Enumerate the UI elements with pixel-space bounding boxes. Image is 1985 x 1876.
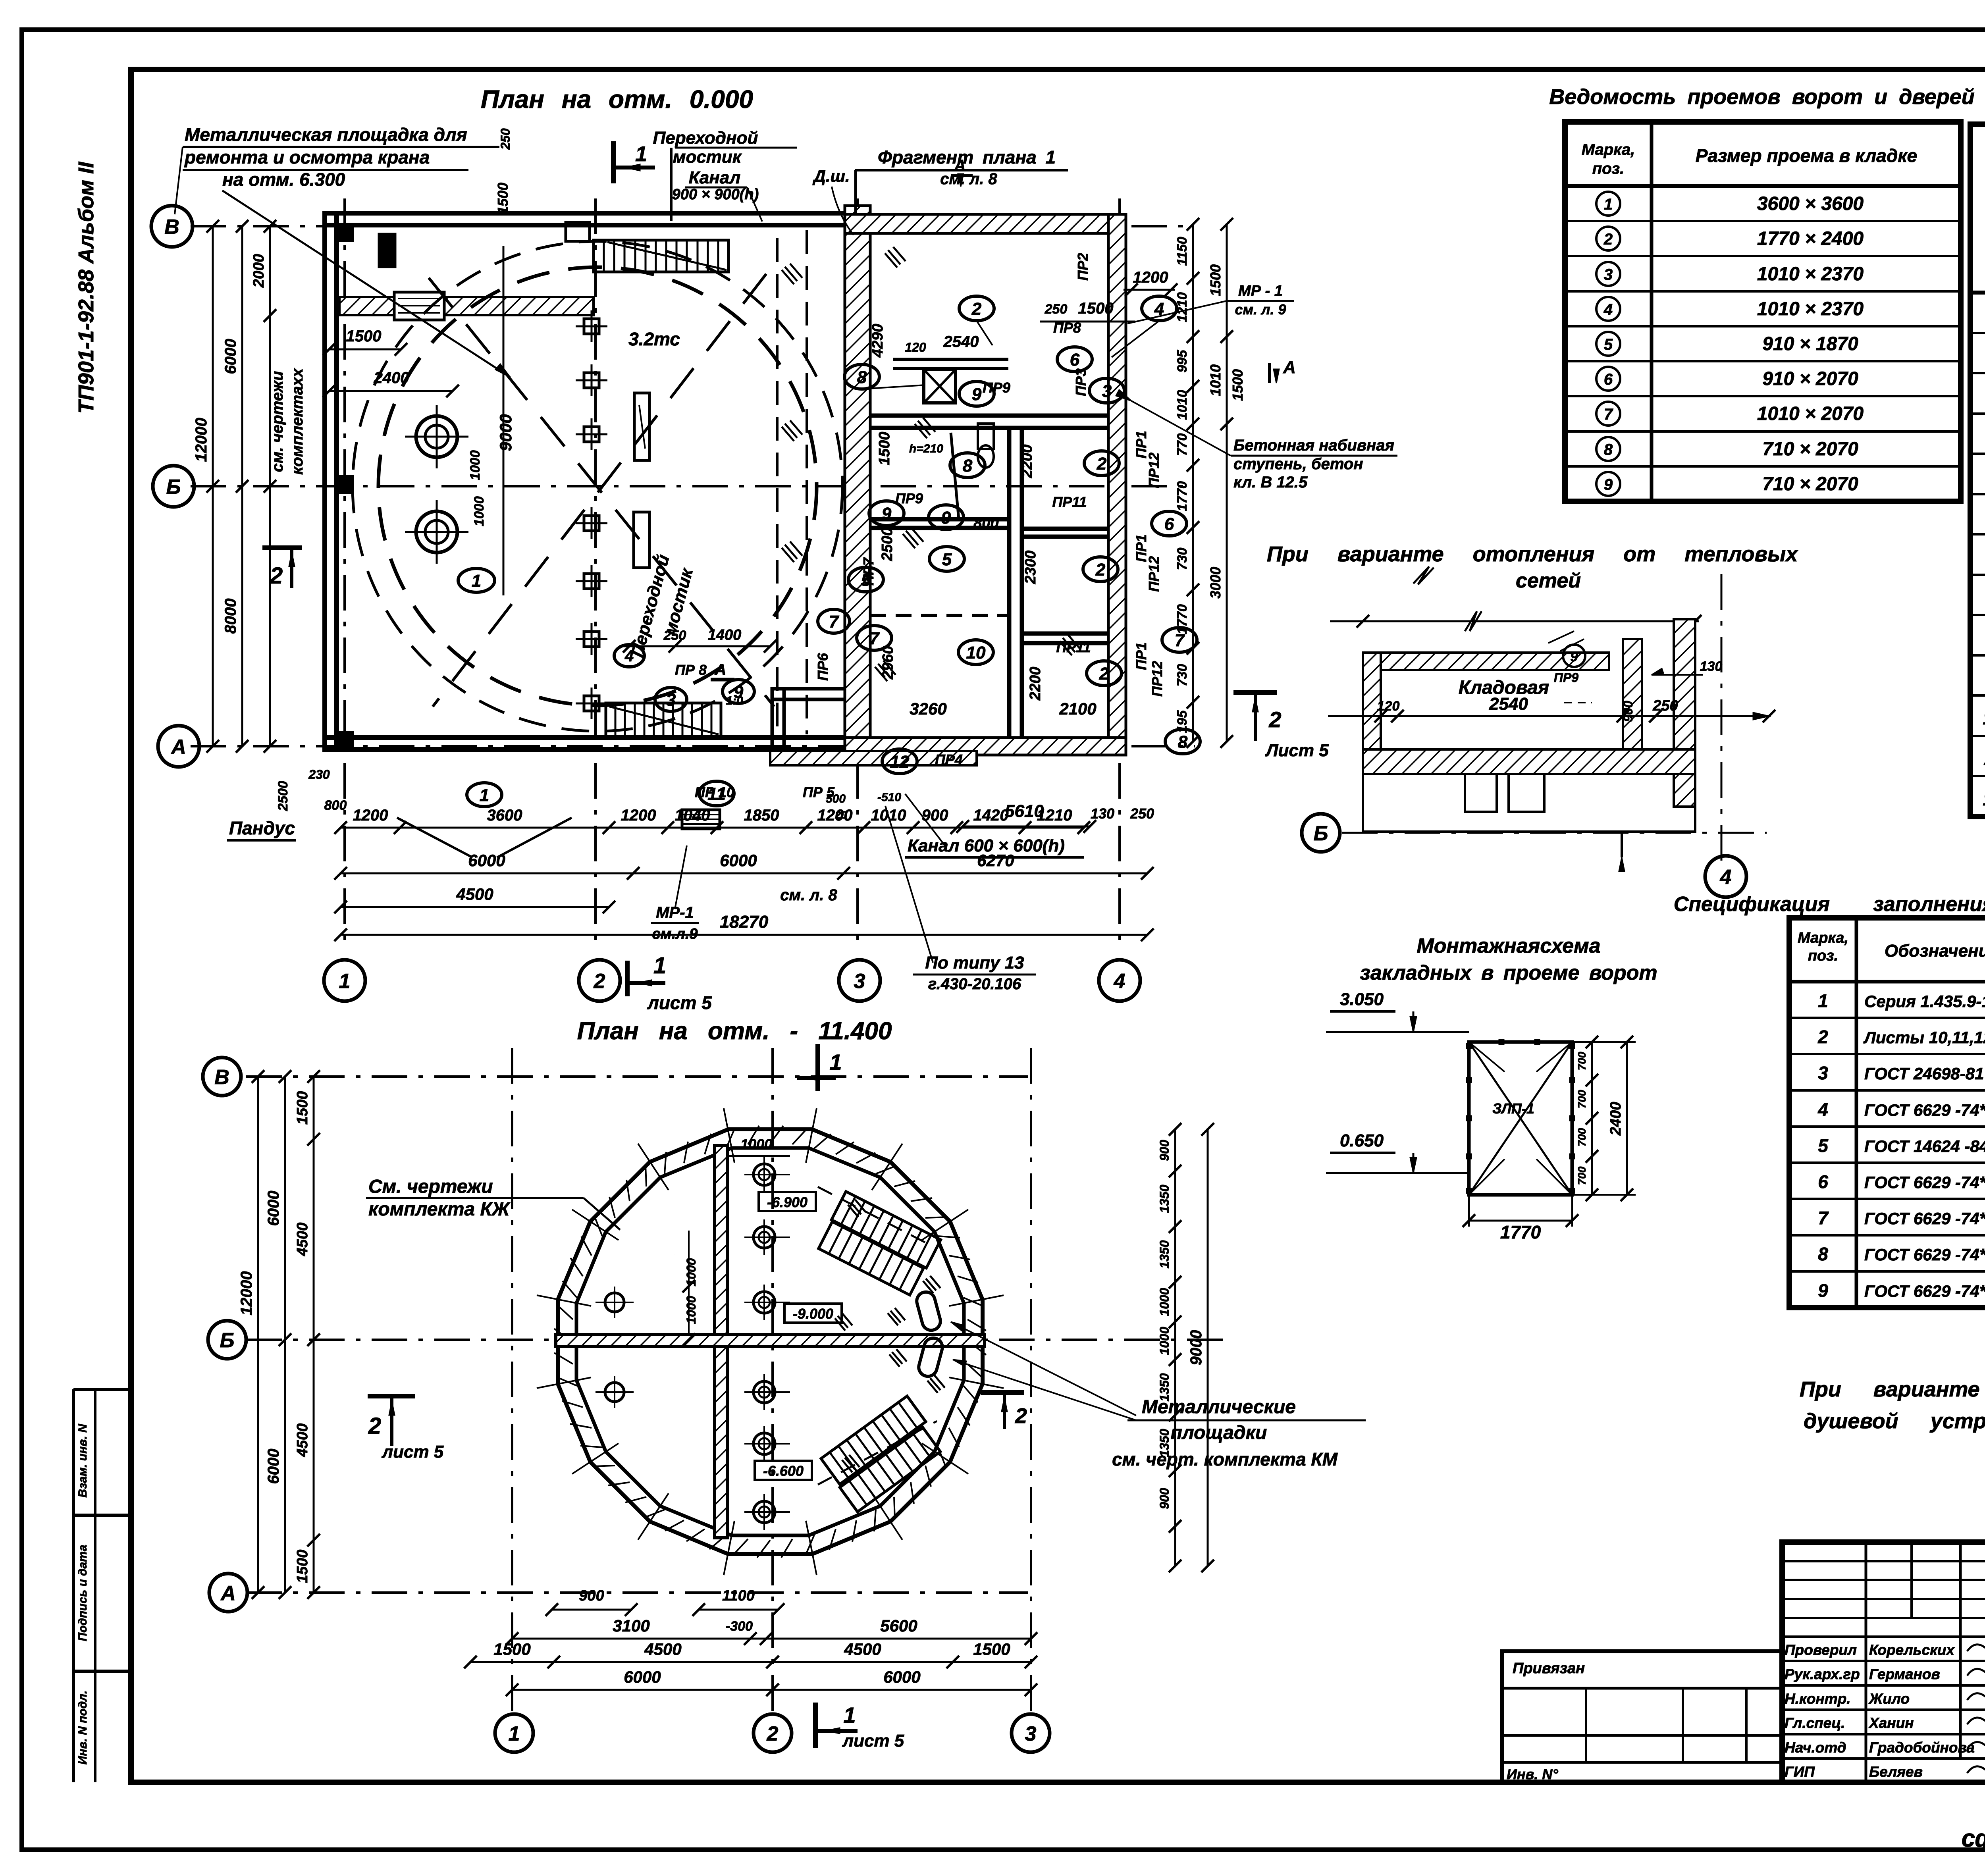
svg-text:2540: 2540 <box>943 333 979 351</box>
svg-text:5: 5 <box>942 550 952 569</box>
svg-text:5: 5 <box>1818 1135 1829 1156</box>
svg-text:700: 700 <box>1576 1166 1588 1185</box>
svg-text:1010: 1010 <box>1175 390 1190 420</box>
svg-text:ступень, бетон: ступень, бетон <box>1233 455 1363 473</box>
svg-text:4500: 4500 <box>844 1640 881 1658</box>
svg-text:3600: 3600 <box>487 807 522 824</box>
svg-text:230: 230 <box>308 767 330 782</box>
svg-text:4: 4 <box>1720 866 1732 889</box>
svg-text:ПР3: ПР3 <box>1073 368 1089 396</box>
svg-text:2: 2 <box>1817 1027 1828 1047</box>
svg-text:1010 × 2070: 1010 × 2070 <box>1757 403 1864 424</box>
svg-text:1770: 1770 <box>1500 1222 1541 1242</box>
svg-text:6: 6 <box>1070 350 1080 370</box>
svg-text:1500: 1500 <box>1207 264 1224 296</box>
svg-text:4: 4 <box>1114 970 1125 993</box>
svg-text:Жило: Жило <box>1868 1691 1910 1707</box>
svg-text:12: 12 <box>890 752 910 772</box>
svg-text:1420: 1420 <box>973 807 1009 824</box>
svg-text:900: 900 <box>1157 1140 1172 1161</box>
svg-text:1: 1 <box>653 953 666 978</box>
svg-text:7: 7 <box>1818 1208 1829 1228</box>
svg-text:6000: 6000 <box>720 851 757 870</box>
svg-text:6000: 6000 <box>468 851 505 870</box>
svg-text:См. чертежи: См. чертежи <box>368 1176 493 1197</box>
svg-text:1000: 1000 <box>1157 1288 1172 1316</box>
svg-text:комплектахх: комплектахх <box>289 368 306 475</box>
svg-text:ГОСТ 14624 -84: ГОСТ 14624 -84 <box>1864 1137 1985 1156</box>
svg-text:см. л. 8: см. л. 8 <box>780 886 837 904</box>
svg-text:Монтажнаясхема: Монтажнаясхема <box>1416 934 1600 957</box>
svg-text:Корельских: Корельских <box>1869 1642 1955 1658</box>
svg-text:1: 1 <box>843 1703 856 1728</box>
svg-text:План на отм. - 11.400: План на отм. - 11.400 <box>577 1017 892 1045</box>
svg-text:Инв. N°: Инв. N° <box>1507 1766 1558 1782</box>
svg-text:1500: 1500 <box>294 1550 311 1583</box>
svg-text:2400: 2400 <box>374 369 409 387</box>
svg-text:Ведомость проемов ворот и двер: Ведомость проемов ворот и дверей <box>1549 85 1975 109</box>
svg-text:195: 195 <box>1175 710 1190 733</box>
svg-text:900: 900 <box>1621 701 1635 722</box>
svg-text:Нач.отд: Нач.отд <box>1785 1739 1846 1756</box>
svg-text:Взам. инв. N: Взам. инв. N <box>76 1423 89 1498</box>
svg-text:7: 7 <box>869 629 880 648</box>
svg-text:6000: 6000 <box>265 1449 282 1484</box>
svg-text:Инв. N подл.: Инв. N подл. <box>76 1691 89 1765</box>
svg-text:9000: 9000 <box>496 414 515 451</box>
svg-text:ПР6: ПР6 <box>815 653 831 681</box>
svg-text:4290: 4290 <box>869 324 886 358</box>
svg-text:20: 20 <box>835 809 847 821</box>
svg-text:5: 5 <box>1604 336 1613 353</box>
svg-text:1000: 1000 <box>684 1296 698 1324</box>
svg-text:ТП901-1-92.88 Альбом II: ТП901-1-92.88 Альбом II <box>74 162 98 414</box>
svg-text:8: 8 <box>1604 441 1613 458</box>
svg-text:770: 770 <box>1175 433 1190 456</box>
svg-text:ГОСТ 6629 -74*: ГОСТ 6629 -74* <box>1864 1245 1985 1264</box>
svg-text:9: 9 <box>1571 649 1578 664</box>
svg-text:1010 × 2370: 1010 × 2370 <box>1757 299 1864 320</box>
svg-text:ПР12: ПР12 <box>1146 453 1162 488</box>
svg-text:1100: 1100 <box>722 1587 755 1604</box>
svg-text:По типу 13: По типу 13 <box>925 953 1024 973</box>
svg-text:В: В <box>164 216 179 239</box>
svg-text:3260: 3260 <box>910 699 946 718</box>
svg-text:Переходной: Переходной <box>653 128 758 148</box>
svg-text:душевой устраивается кладовая.: душевой устраивается кладовая. <box>1804 1409 1985 1433</box>
svg-text:2300: 2300 <box>1022 551 1039 585</box>
svg-text:900: 900 <box>1157 1488 1172 1509</box>
svg-text:-300: -300 <box>726 1619 753 1634</box>
svg-text:закладных в проеме ворот: закладных в проеме ворот <box>1360 961 1657 984</box>
svg-text:Н.контр.: Н.контр. <box>1785 1691 1850 1707</box>
svg-text:9000: 9000 <box>1187 1330 1205 1366</box>
svg-text:1350: 1350 <box>1157 1429 1172 1457</box>
svg-text:1: 1 <box>509 1722 520 1745</box>
svg-text:поз.: поз. <box>1592 160 1624 177</box>
svg-text:8: 8 <box>1818 1244 1828 1264</box>
svg-text:1: 1 <box>1604 196 1613 213</box>
svg-text:1400: 1400 <box>708 627 742 643</box>
svg-text:9: 9 <box>941 508 951 528</box>
svg-text:130: 130 <box>1700 659 1723 674</box>
svg-text:1: 1 <box>1818 990 1828 1011</box>
svg-text:ГОСТ 6629 -74*: ГОСТ 6629 -74* <box>1864 1282 1985 1300</box>
svg-text:Подпись и дата: Подпись и дата <box>76 1545 89 1641</box>
svg-text:6: 6 <box>1164 514 1174 534</box>
svg-text:ПР12: ПР12 <box>1149 661 1165 697</box>
svg-text:2500: 2500 <box>276 781 291 811</box>
svg-text:1500: 1500 <box>294 1091 311 1125</box>
svg-text:1770: 1770 <box>1175 604 1190 634</box>
svg-text:8000: 8000 <box>222 599 239 634</box>
svg-text:6: 6 <box>1818 1171 1828 1192</box>
svg-text:1200: 1200 <box>621 807 656 824</box>
svg-text:18270: 18270 <box>720 912 769 932</box>
svg-text:250: 250 <box>1652 697 1678 714</box>
svg-text:А: А <box>220 1582 236 1605</box>
svg-text:см. чертежи: см. чертежи <box>269 371 286 472</box>
svg-text:лист 5: лист 5 <box>842 1731 904 1751</box>
svg-text:ГОСТ 6629 -74*: ГОСТ 6629 -74* <box>1864 1101 1985 1119</box>
svg-text:см. черт. комплекта КМ: см. черт. комплекта КМ <box>1112 1449 1338 1470</box>
svg-text:1: 1 <box>339 970 351 993</box>
svg-text:см. л. 8: см. л. 8 <box>940 170 997 188</box>
svg-text:5610: 5610 <box>1005 801 1044 821</box>
svg-text:2: 2 <box>1268 707 1281 732</box>
svg-text:1500: 1500 <box>493 1640 530 1658</box>
svg-text:ЗЛП-1: ЗЛП-1 <box>1492 1100 1534 1117</box>
svg-text:ПР9: ПР9 <box>895 490 923 507</box>
svg-text:Кладовая: Кладовая <box>1459 677 1549 698</box>
svg-text:-510: -510 <box>877 791 901 804</box>
svg-text:10: 10 <box>966 643 986 663</box>
svg-text:7: 7 <box>829 612 840 632</box>
svg-text:Б: Б <box>1314 822 1328 845</box>
svg-text:900 × 900(h): 900 × 900(h) <box>672 186 759 203</box>
svg-text:3: 3 <box>854 970 865 993</box>
svg-text:1500: 1500 <box>1078 300 1114 317</box>
svg-text:ГОСТ 6629 -74*: ГОСТ 6629 -74* <box>1864 1209 1985 1228</box>
svg-text:ГОСТ 24698-81: ГОСТ 24698-81 <box>1864 1064 1984 1083</box>
svg-text:-6.600: -6.600 <box>763 1463 804 1479</box>
svg-text:1000: 1000 <box>740 1136 772 1152</box>
svg-text:1350: 1350 <box>1157 1373 1172 1401</box>
svg-text:кл. В 12.5: кл. В 12.5 <box>1233 474 1308 491</box>
svg-text:1500: 1500 <box>1230 369 1246 401</box>
svg-text:3.050: 3.050 <box>1340 990 1384 1009</box>
svg-text:9: 9 <box>882 504 892 524</box>
svg-text:250: 250 <box>498 128 513 150</box>
svg-text:Рук.арх.гр: Рук.арх.гр <box>1785 1666 1860 1682</box>
svg-text:Канал: Канал <box>689 168 740 187</box>
svg-text:130: 130 <box>1091 805 1114 822</box>
svg-text:1850: 1850 <box>744 807 779 824</box>
svg-text:Гл.спец.: Гл.спец. <box>1785 1715 1845 1731</box>
svg-text:910 × 1870: 910 × 1870 <box>1762 333 1858 354</box>
svg-text:МР - 1: МР - 1 <box>1238 283 1283 299</box>
svg-text:на отм. 6.300: на отм. 6.300 <box>222 169 345 190</box>
svg-text:ГОСТ 6629 -74*: ГОСТ 6629 -74* <box>1864 1173 1985 1192</box>
svg-text:11: 11 <box>1983 748 1985 769</box>
svg-text:2200: 2200 <box>1019 445 1035 479</box>
svg-text:h=210: h=210 <box>909 442 943 455</box>
svg-text:Обозначение: Обозначение <box>1885 941 1985 961</box>
svg-text:12: 12 <box>1983 789 1985 809</box>
svg-text:730: 730 <box>1175 664 1190 687</box>
svg-text:3.2тс: 3.2тс <box>628 329 680 349</box>
svg-text:2: 2 <box>270 563 283 589</box>
svg-text:4: 4 <box>1603 301 1613 318</box>
svg-text:1500: 1500 <box>346 327 382 345</box>
svg-text:700: 700 <box>1576 1052 1588 1070</box>
svg-text:1: 1 <box>472 571 481 591</box>
svg-text:Бетонная набивная: Бетонная набивная <box>1233 437 1394 454</box>
svg-text:А: А <box>1283 358 1296 377</box>
svg-text:Металлическая площадка для: Металлическая площадка для <box>185 124 467 145</box>
svg-text:2: 2 <box>594 970 605 993</box>
svg-text:6000: 6000 <box>265 1191 282 1226</box>
svg-text:площадки: площадки <box>1171 1422 1267 1443</box>
svg-text:9: 9 <box>972 385 982 404</box>
svg-text:ПР11: ПР11 <box>1052 494 1087 510</box>
svg-text:120: 120 <box>905 340 926 354</box>
svg-text:Размер проема в кладке: Размер проема в кладке <box>1696 145 1917 166</box>
svg-text:4500: 4500 <box>644 1640 681 1658</box>
svg-text:г.430-20.106: г.430-20.106 <box>928 975 1021 993</box>
svg-text:мостик: мостик <box>673 147 742 167</box>
svg-text:1:0: 1:0 <box>726 694 743 707</box>
svg-text:лист 5: лист 5 <box>382 1442 444 1462</box>
svg-text:Листы 10,11,12,13: Листы 10,11,12,13 <box>1863 1028 1985 1047</box>
svg-text:1350: 1350 <box>1157 1240 1172 1268</box>
svg-text:А: А <box>715 661 727 678</box>
svg-text:3000: 3000 <box>1207 567 1224 599</box>
svg-text:ПР4: ПР4 <box>935 751 963 768</box>
svg-text:250: 250 <box>1130 805 1154 822</box>
svg-text:6000: 6000 <box>222 339 239 374</box>
svg-text:ПР12: ПР12 <box>1146 556 1162 592</box>
svg-text:3100: 3100 <box>613 1616 649 1635</box>
svg-text:ПР11: ПР11 <box>1056 639 1091 655</box>
svg-text:6270: 6270 <box>977 851 1014 870</box>
svg-text:1200: 1200 <box>353 807 388 824</box>
svg-text:7: 7 <box>1604 406 1613 423</box>
svg-text:1: 1 <box>480 786 489 805</box>
svg-text:Пандус: Пандус <box>229 818 295 838</box>
svg-text:4500: 4500 <box>294 1223 311 1257</box>
svg-text:730: 730 <box>1175 548 1190 570</box>
svg-text:1040: 1040 <box>675 807 710 824</box>
svg-text:4500: 4500 <box>456 885 493 903</box>
svg-text:1000: 1000 <box>472 496 487 526</box>
svg-text:ПР2: ПР2 <box>1075 253 1091 281</box>
svg-text:План на отм. 0.000: План на отм. 0.000 <box>481 85 753 114</box>
svg-text:2: 2 <box>971 299 982 319</box>
svg-text:12000: 12000 <box>238 1271 255 1315</box>
svg-text:2500: 2500 <box>879 528 896 562</box>
svg-text:Д.ш.: Д.ш. <box>812 167 850 185</box>
svg-text:1: 1 <box>635 142 647 166</box>
svg-text:1150: 1150 <box>1175 237 1190 266</box>
svg-text:см. л. 9: см. л. 9 <box>1235 301 1286 318</box>
svg-text:Проверил: Проверил <box>1785 1642 1857 1658</box>
svg-text:2: 2 <box>368 1413 381 1439</box>
svg-text:1350: 1350 <box>1157 1185 1172 1213</box>
svg-text:А: А <box>170 736 186 759</box>
svg-text:При варианте отопления от тепл: При варианте отопления от тепловых <box>1267 542 1798 566</box>
svg-text:9: 9 <box>1818 1280 1828 1301</box>
svg-text:3: 3 <box>1818 1063 1828 1083</box>
svg-text:лист 5: лист 5 <box>647 992 712 1013</box>
svg-text:995: 995 <box>1175 350 1190 373</box>
svg-text:1000: 1000 <box>468 450 483 480</box>
svg-text:1: 1 <box>829 1050 842 1075</box>
svg-text:Привязан: Привязан <box>1513 1660 1585 1677</box>
svg-text:1210: 1210 <box>1175 292 1190 322</box>
svg-text:комплекта КЖ: комплекта КЖ <box>368 1199 511 1220</box>
svg-text:1770 × 2400: 1770 × 2400 <box>1757 228 1864 249</box>
svg-text:2: 2 <box>1015 1404 1027 1428</box>
svg-text:ПР9: ПР9 <box>1554 670 1578 685</box>
svg-text:1010 × 2370: 1010 × 2370 <box>1757 264 1864 285</box>
svg-text:8: 8 <box>1178 732 1188 752</box>
svg-text:8: 8 <box>857 368 867 387</box>
svg-text:2: 2 <box>1095 560 1106 580</box>
svg-text:1000: 1000 <box>1157 1327 1172 1355</box>
svg-text:3600 × 3600: 3600 × 3600 <box>1757 193 1864 214</box>
svg-text:1010: 1010 <box>1207 364 1224 396</box>
svg-text:3: 3 <box>666 690 676 710</box>
svg-text:710 × 2070: 710 × 2070 <box>1762 474 1858 495</box>
svg-text:ПР1: ПР1 <box>1133 642 1149 670</box>
svg-text:800: 800 <box>324 798 347 813</box>
svg-text:Б: Б <box>166 476 181 499</box>
svg-text:0.650: 0.650 <box>1340 1131 1384 1150</box>
svg-text:12000: 12000 <box>193 418 210 462</box>
svg-text:В: В <box>214 1066 229 1089</box>
svg-text:4: 4 <box>1817 1099 1828 1120</box>
svg-text:3: 3 <box>1102 381 1112 401</box>
svg-text:ПР7: ПР7 <box>860 557 877 586</box>
svg-text:710 × 2070: 710 × 2070 <box>1762 439 1858 460</box>
svg-text:500: 500 <box>826 792 846 805</box>
svg-text:Градобойнова: Градобойнова <box>1869 1739 1975 1756</box>
svg-text:6000: 6000 <box>624 1668 661 1686</box>
svg-text:Германов: Германов <box>1869 1666 1940 1682</box>
svg-text:ПР 8: ПР 8 <box>675 662 707 678</box>
svg-text:5600: 5600 <box>880 1616 917 1635</box>
svg-text:120: 120 <box>1377 699 1400 714</box>
svg-text:2: 2 <box>1097 454 1107 474</box>
svg-text:2000: 2000 <box>251 254 267 288</box>
svg-text:8: 8 <box>963 456 973 476</box>
svg-text:Фрагмент плана 1: Фрагмент плана 1 <box>878 147 1056 168</box>
svg-text:910 × 2070: 910 × 2070 <box>1762 368 1858 389</box>
svg-text:2: 2 <box>1603 231 1613 248</box>
svg-text:6: 6 <box>1604 371 1613 388</box>
svg-text:Марка,: Марка, <box>1798 930 1848 946</box>
svg-text:При варианте отопления от тепл: При варианте отопления от тепловых сетей… <box>1800 1377 1985 1401</box>
svg-text:2400: 2400 <box>1607 1102 1624 1136</box>
svg-text:ремонта и осмотра крана: ремонта и осмотра крана <box>184 147 430 168</box>
svg-text:3: 3 <box>1025 1722 1037 1745</box>
svg-text:см.л.9: см.л.9 <box>652 926 698 942</box>
svg-text:2200: 2200 <box>1027 667 1044 701</box>
svg-text:ПР 10: ПР 10 <box>695 784 734 800</box>
svg-text:250: 250 <box>1045 302 1068 317</box>
svg-text:1500: 1500 <box>973 1640 1010 1658</box>
svg-text:1500: 1500 <box>876 432 893 466</box>
svg-text:1500: 1500 <box>495 183 511 214</box>
svg-text:Б: Б <box>220 1329 235 1352</box>
svg-text:1200: 1200 <box>1133 269 1168 286</box>
svg-text:Ханин: Ханин <box>1868 1715 1914 1731</box>
svg-text:800: 800 <box>973 515 998 532</box>
svg-text:2: 2 <box>767 1722 779 1745</box>
svg-text:сетей: сетей <box>1516 569 1581 592</box>
svg-text:900: 900 <box>579 1587 604 1604</box>
svg-text:Марка,: Марка, <box>1582 141 1635 158</box>
svg-text:2960: 2960 <box>880 646 896 680</box>
svg-text:9: 9 <box>1604 476 1613 493</box>
svg-text:-9.000: -9.000 <box>793 1306 833 1322</box>
svg-text:поз.: поз. <box>1808 948 1838 964</box>
svg-text:ПР9: ПР9 <box>983 379 1010 396</box>
svg-text:1770: 1770 <box>1175 481 1190 511</box>
svg-text:-6.900: -6.900 <box>767 1194 807 1210</box>
svg-text:700: 700 <box>1576 1128 1588 1146</box>
svg-text:2100: 2100 <box>1059 699 1096 718</box>
svg-text:Лист 5: Лист 5 <box>1265 741 1329 760</box>
svg-text:3: 3 <box>1604 266 1613 283</box>
svg-text:10: 10 <box>1983 708 1985 728</box>
svg-text:Беляев: Беляев <box>1869 1764 1923 1780</box>
svg-text:6000: 6000 <box>883 1668 920 1686</box>
svg-text:Серия 1.435.9-17: Серия 1.435.9-17 <box>1864 992 1985 1011</box>
svg-text:ГИП: ГИП <box>1785 1764 1815 1780</box>
svg-text:4500: 4500 <box>294 1423 311 1458</box>
svg-text:2: 2 <box>1099 664 1109 684</box>
svg-text:сф 950-01: сф 950-01 <box>1962 1825 1985 1852</box>
svg-text:250: 250 <box>663 628 686 643</box>
svg-text:700: 700 <box>1576 1090 1588 1108</box>
